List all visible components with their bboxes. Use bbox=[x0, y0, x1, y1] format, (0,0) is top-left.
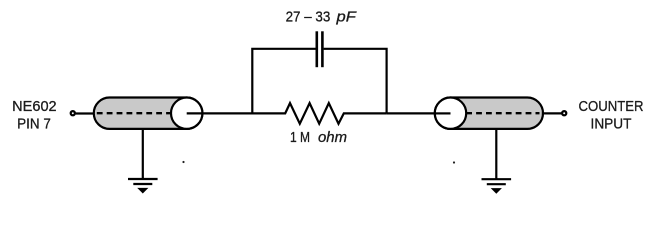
svg-text:ohm: ohm bbox=[318, 130, 347, 146]
svg-text:INPUT: INPUT bbox=[591, 115, 632, 132]
wire terminal-left to shield-left bbox=[76, 112, 95, 114]
value label 1 M ohm bbox=[290, 130, 347, 146]
wire junction B to shield-right bbox=[387, 112, 451, 114]
capacitor C 27-33 pF bbox=[317, 31, 323, 67]
shielded cable (right) bbox=[435, 98, 543, 129]
node NE602 PIN 7 label bbox=[12, 98, 57, 132]
svg-text:pF: pF bbox=[335, 8, 356, 25]
node COUNTER INPUT label bbox=[579, 98, 644, 132]
terminal (right, counter input) bbox=[562, 111, 566, 115]
wire ground stem (left) bbox=[142, 129, 144, 179]
wire ground stem (right) bbox=[495, 129, 497, 179]
value label 27 - 33 pF bbox=[286, 8, 357, 25]
svg-text:27 – 33: 27 – 33 bbox=[286, 8, 331, 25]
ground (left) bbox=[128, 179, 158, 194]
speck (right) bbox=[453, 161, 455, 163]
speck (left) bbox=[182, 161, 184, 163]
svg-text:NE602: NE602 bbox=[12, 98, 57, 115]
ground (right) bbox=[482, 179, 512, 194]
wire shield-left to junction A bbox=[187, 112, 253, 114]
wire shield-right to terminal-right bbox=[542, 112, 562, 114]
svg-text:1 M: 1 M bbox=[290, 130, 310, 146]
shielded cable (left) bbox=[94, 98, 203, 129]
wire capacitor branch right (down to junction B) bbox=[324, 49, 387, 114]
svg-text:COUNTER: COUNTER bbox=[579, 98, 644, 115]
svg-text:PIN 7: PIN 7 bbox=[17, 115, 51, 132]
terminal (left, NE602 pin 7) bbox=[71, 111, 75, 115]
wire capacitor branch left (junction A up and right) bbox=[252, 49, 315, 114]
resistor R 1 M ohm bbox=[253, 103, 387, 124]
